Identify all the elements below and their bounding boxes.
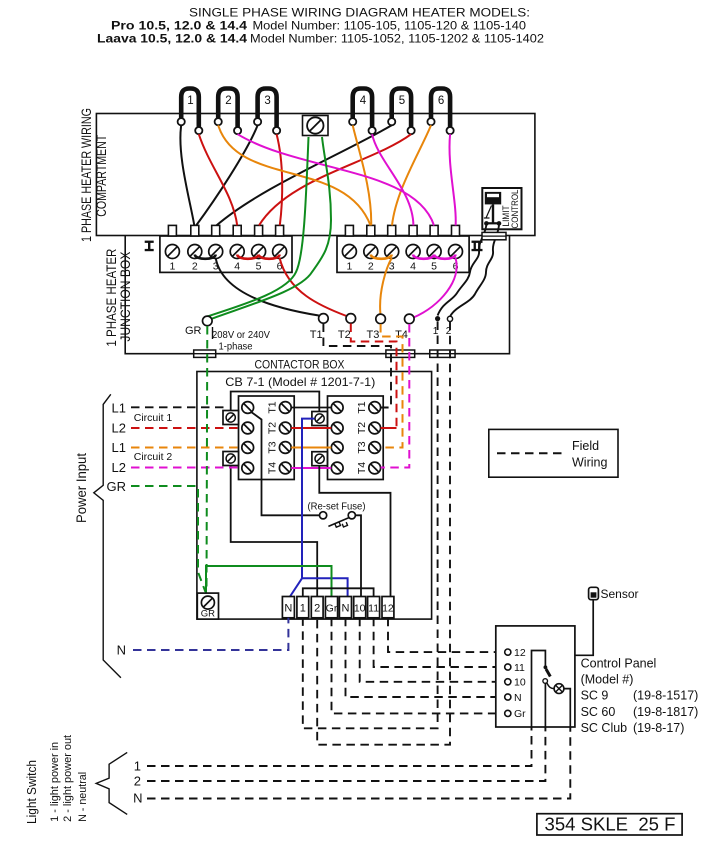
control panel box [496,626,575,727]
svg-text:12: 12 [514,647,526,659]
block II screw 2 [364,245,378,273]
block I screw 5 [252,245,266,273]
svg-text:T1: T1 [267,401,279,413]
wire block I screw6 to T2 node (red) [280,258,347,316]
wire element1 right pin to block I tab4 (red) [199,134,237,225]
label Circuit 2 [134,451,173,463]
svg-text:GR: GR [107,479,127,494]
node T2 [338,314,356,341]
svg-text:T1: T1 [356,401,368,413]
panel terminal 12 [505,647,526,659]
wire block I screw3 to T1 node (black) [216,258,319,316]
element 5 pin left [388,118,395,125]
svg-text:4: 4 [360,95,367,107]
svg-text:354 SKLE 25 F: 354 SKLE 25 F [545,815,676,835]
node 2 (limit control) [446,316,453,337]
field wire node 2 to strip cell 2 (dashed) [317,322,450,745]
label Power Input [74,453,89,523]
field wire T1 to CB2 (black dashed) [323,324,391,408]
ground wire GR node to ground screw (green, right) [210,137,332,320]
svg-text:2: 2 [368,261,374,273]
node T4 [395,314,414,341]
element 6 pin left [427,118,434,125]
contactor CB1 (left) T4 right screw [279,462,291,474]
label N [117,643,126,658]
wire element3 right pin to block I tab6 (red) [277,134,283,225]
svg-text:CB 7-1 (Model # 1201-7-1): CB 7-1 (Model # 1201-7-1) [225,375,375,389]
compartment label: COMPARTMENT [94,135,109,217]
wire CB2 coil upper terminal to N cells (blue) [290,419,348,597]
svg-text:1: 1 [187,95,193,107]
svg-text:L1: L1 [112,401,126,416]
GR ground screw box (contactor) [197,593,218,619]
element 6 pin right [447,127,454,134]
svg-text:N: N [284,603,292,615]
wire T2 row: CB1 to CB2 (red) [291,427,331,429]
wire element2 left pin to block II tab2 (orange) [218,125,370,225]
wire element4 left pin to block II tab2 (orange) [353,125,372,225]
jumper block II screws 4-5 (magenta) [413,255,434,259]
svg-text:6: 6 [438,95,444,107]
label L1 circuit2 [112,440,126,455]
sensor [589,587,639,601]
svg-text:T1: T1 [310,329,323,341]
svg-text:N - neutral: N - neutral [77,772,89,822]
svg-text:T2: T2 [356,422,368,434]
svg-text:N: N [514,692,522,704]
block I screw 4 [230,245,244,273]
title line 3 [97,32,544,46]
svg-text:L2: L2 [112,421,126,436]
field wire T4 to CB2 (magenta dashed) [381,324,410,468]
svg-text:4: 4 [234,261,240,273]
svg-text:GR: GR [185,325,202,337]
label L2 circuit2 [112,460,126,475]
jumper block I screws 5-6 (red) [259,255,280,259]
element 3 pin right [273,127,280,134]
svg-text:COMPARTMENT: COMPARTMENT [94,135,109,217]
heater element 4 [353,89,372,128]
svg-text:2: 2 [134,774,141,789]
svg-text:Gr: Gr [326,603,338,615]
contactor CB2 (right) label T1 [356,401,368,413]
contactor CB2 (right) body [328,396,384,480]
svg-text:T4: T4 [267,462,279,474]
wire element4 right pin to block II tab4 (magenta) [372,134,413,225]
wire block II screw3 to T3 node (orange) [380,258,392,314]
svg-text:(Re-set Fuse): (Re-set Fuse) [308,501,366,513]
label light 2 [134,774,141,789]
svg-text:SINGLE PHASE WIRING DIAGRAM HE: SINGLE PHASE WIRING DIAGRAM HEATER MODEL… [189,6,530,20]
block I screw 3 [209,245,223,273]
svg-text:2: 2 [192,261,198,273]
svg-text:1: 1 [169,261,175,273]
label L1 circuit1 [112,401,126,416]
contactor CB2 (right) T3 right screw [369,442,381,454]
field wire strip Gr to panel Gr (dashed) [332,618,505,714]
field wire L1 circuit1 (black dashed) [131,406,228,408]
jumper block I screws 2-3 (black) [195,255,216,259]
contactor CB1 (left) T2 left screw [242,422,254,434]
jumper strip cell 1 to cell 11 [303,588,374,596]
block II screw 4 [406,245,420,273]
field wire light 2 (dashed) [147,727,545,781]
svg-text:11: 11 [514,662,525,674]
svg-text:(19-8-1517): (19-8-1517) [633,689,698,703]
wire element3 left pin to block I tab2 (black) [196,125,257,225]
svg-text:Control Panel: Control Panel [581,656,657,670]
label Circuit 1 [134,412,173,424]
svg-text:SC Club: SC Club [581,721,628,735]
node GR [185,316,212,337]
field wire strip 10 to panel 10 (dashed) [360,618,505,682]
wire element2 right pin to block II tab5 (magenta) [238,134,434,225]
svg-text:SC 9: SC 9 [581,689,609,703]
element 1 pin right [195,127,202,134]
svg-text:T2: T2 [267,422,279,434]
block II screw 6 [449,245,463,273]
wire element6 left pin to block II tab3 (orange) [392,125,431,225]
svg-text:Pro 10.5, 12.0 & 14.4Model Num: Pro 10.5, 12.0 & 14.4Model Number: 1105-… [111,19,526,33]
svg-text:1-phase: 1-phase [219,341,253,353]
wire CB1 T1 screw to reset fuse left [251,412,320,516]
cable clamp right (junction box bottom) [430,350,455,357]
limit control box [482,188,521,229]
node T3 [366,314,385,341]
element 3 pin left [254,118,261,125]
svg-text:1 PHASE HEATER: 1 PHASE HEATER [104,248,119,346]
power input brace [94,394,121,677]
contactor CB2 (right) T3 left screw [331,442,343,454]
field wire node 1 to strip cell 1 (dashed) [303,322,438,729]
svg-text:5: 5 [256,261,262,273]
svg-text:SC 60: SC 60 [581,705,616,719]
wire T3 row: CB1 to CB2 (orange) [291,447,331,449]
svg-text:(Model #): (Model #) [581,673,634,687]
heater wiring compartment box [96,114,535,236]
wire element5 right pin to block I tab5 (red) [259,134,411,225]
contactor CB1 (left) T3 left screw [242,442,254,454]
block I screw 2 [188,245,202,273]
svg-text:T3: T3 [267,441,279,453]
svg-text:JUNCTION BOX: JUNCTION BOX [118,252,133,342]
label CONTACTOR BOX [255,358,345,372]
svg-text:12: 12 [382,603,394,615]
field wire light 1 (dashed) [147,727,532,766]
svg-text:3: 3 [264,95,270,107]
panel light switch [532,651,555,728]
svg-text:1 - light power in: 1 - light power in [49,742,61,822]
wire GR screw to strip cell Gr (green) [206,566,332,597]
contactor CB1 (left) label T2 [267,422,279,434]
contactor CB2 (right) T4 right screw [369,462,381,474]
contactor CB2 (right) label T3 [356,441,368,453]
wire CB2 coil lower terminal to strip cell 12 [319,466,390,597]
field wire L2 circuit1 (red dashed) [131,427,241,429]
contactor CB1 (left) T1 right screw [279,402,291,414]
panel terminal Gr [505,708,526,720]
jumper block II screws 2-3 (orange) [371,255,392,259]
wire T1 row: CB1 to CB2 (black) [291,407,331,409]
svg-text:N: N [133,791,142,806]
svg-text:T3: T3 [356,441,368,453]
field wire L1 circuit2 (orange dashed) [131,447,241,449]
svg-text:5: 5 [399,95,405,107]
field wire strip 11 to panel 11 (dashed) [374,618,505,667]
svg-text:L2: L2 [112,460,126,475]
svg-text:Wiring: Wiring [572,455,607,469]
cable clamp limit control (compartment bottom) [482,232,506,239]
sensor wire to panel [575,600,593,656]
ground wire GR node to ground screw (green, left) [207,137,308,317]
svg-text:L1: L1 [112,440,126,455]
svg-text:T2: T2 [338,329,351,341]
legend 1 - light power in [49,742,61,822]
svg-text:1: 1 [134,759,141,774]
reset fuse [308,501,366,528]
legend N - neutral [77,772,89,822]
cable clamp left (junction box bottom) [194,350,216,357]
compartment label: 1 PHASE HEATER WIRING [79,108,94,242]
contactor CB2 coil terminal upper [312,412,328,426]
contactor CB1 (left) T3 right screw [279,442,291,454]
legend 2 - light power out [62,735,74,822]
svg-text:CONTACTOR BOX: CONTACTOR BOX [255,358,345,372]
field wire GR from junction box (green dashed) [206,326,209,592]
svg-text:Circuit 2: Circuit 2 [134,451,173,463]
junction box label: JUNCTION BOX [118,252,133,342]
element 5 pin right [408,127,415,134]
contactor CB1 (left) T1 left screw [242,402,254,414]
contactor CB2 (right) label T4 [356,462,368,474]
roman numeral II marker [472,241,483,252]
svg-text:Field: Field [572,439,599,453]
terminal strip N 1 2 Gr N 10 11 12 [282,597,394,618]
wire L1 jumper: CB1 coil terminal to CB2 coil terminal (over top) [231,392,320,412]
field wire N (blue dashed) [133,618,288,650]
svg-text:CONTROL: CONTROL [510,190,520,229]
junction box label: 1 PHASE HEATER [104,248,119,346]
panel terminal 11 [505,662,525,674]
svg-text:Light Switch: Light Switch [24,760,39,824]
contactor CB1 (left) body [239,396,295,480]
contactor CB2 (right) T4 left screw [331,462,343,474]
field wire L2 circuit2 (magenta dashed) [131,467,238,469]
drawing number box 354 SKLE 25 F [537,814,682,835]
field wire GR (green dashed) [131,486,206,592]
svg-text:5: 5 [431,261,437,273]
block II screw 5 [427,245,441,273]
node T1 [310,314,328,341]
svg-text:1 PHASE HEATER WIRING: 1 PHASE HEATER WIRING [79,108,94,242]
heater element 2 [218,89,237,128]
svg-text:Gr: Gr [514,708,526,720]
svg-text:1: 1 [346,261,352,273]
block I screw 6 [273,245,287,273]
svg-text:2 - light power out: 2 - light power out [62,735,74,822]
svg-text:N: N [341,603,349,615]
svg-text:(19-8-17): (19-8-17) [633,721,684,735]
jumper block I screws 4-5 (red) [237,255,258,259]
panel indicator lamp [554,684,570,727]
heater element 1 [181,89,199,128]
heater element 3 [258,89,277,128]
wire element6 right pin to block II tab6 (magenta) [450,134,456,225]
svg-text:11: 11 [368,603,379,615]
contactor CB1 (left) label T1 [267,401,279,413]
wire reset fuse right to strip cell 10 [355,515,361,596]
roman numeral I marker [145,241,154,252]
svg-text:T4: T4 [395,329,408,341]
contactor box outline [197,372,432,620]
control panel text block [581,656,699,735]
svg-text:1: 1 [300,603,306,615]
contactor CB2 (right) T1 left screw [331,402,343,414]
heater element 5 [392,89,411,128]
panel terminal 10 [505,677,526,689]
label light 1 [134,759,141,774]
contactor CB1 coil terminal lower [223,452,239,466]
svg-text:Power Input: Power Input [74,453,89,523]
contactor CB2 (right) T1 right screw [369,402,381,414]
light switch brace [96,752,127,814]
contactor CB1 (left) T2 right screw [279,422,291,434]
wire block II screw6 to T4 node (magenta) [414,258,457,318]
wire T2 stub CB2 right (red) [381,427,397,429]
svg-text:2: 2 [314,603,320,615]
svg-text:GR: GR [201,609,215,620]
svg-text:208V or 240V: 208V or 240V [212,329,270,341]
title line 1 [189,6,530,20]
svg-text:10: 10 [354,603,366,615]
limit control wire to node 1 (wavy) [438,224,487,316]
contactor CB1 (left) label T4 [267,462,279,474]
element 2 pin left [215,118,222,125]
svg-text:N: N [117,643,126,658]
field wire T3 to CB2 (orange dashed) [381,324,403,448]
wire T4 row: CB1 to CB2 (magenta) [291,467,331,469]
svg-text:T3: T3 [366,329,379,341]
label 208V or 240V 1-phase [212,327,270,353]
field wire light N (dashed) [147,727,570,799]
contactor CB1 (left) T4 left screw [242,462,254,474]
contactor CB2 coil terminal lower [312,452,328,466]
label Light Switch [24,760,39,824]
title line 2 [111,19,526,33]
field wire strip N to panel N (dashed) [346,618,505,697]
label GR [107,479,127,494]
wire element5 left pin to block I tab3 (black) [217,125,392,225]
wire CB1 coil lower terminal to strip cell 2 [231,466,318,597]
svg-text:Laava 10.5, 12.0 & 14.4Model N: Laava 10.5, 12.0 & 14.4Model Number: 110… [97,32,544,46]
label light N [133,791,142,806]
panel terminal N [505,692,522,704]
block II screw 1 [342,245,356,273]
jumper block II screws 5-6 (magenta) [434,255,455,259]
heater element 6 [431,89,450,128]
label CB 7-1 (Model # 1201-7-1) [225,375,375,389]
field wire T2 to CB2 (red dashed) [351,324,397,429]
contactor CB2 (right) T2 left screw [331,422,343,434]
block II screw 3 [385,245,399,273]
element 1 pin left [178,118,185,125]
node 1 (limit control) [433,316,440,337]
contactor CB1 (left) label T3 [267,441,279,453]
terminal block II (right) [337,225,469,272]
contactor CB1 coil terminal upper [223,411,239,425]
element 4 pin left [349,118,356,125]
cable clamp middle (junction box bottom) [386,350,415,357]
contactor CB2 (right) T2 right screw [369,422,381,434]
element 2 pin right [234,127,241,134]
junction box outline [125,236,509,354]
svg-text:Sensor: Sensor [601,587,639,601]
label L2 circuit1 [112,421,126,436]
svg-text:4: 4 [410,261,416,273]
field wiring legend box [489,429,618,477]
element 4 pin right [369,127,376,134]
svg-text:T4: T4 [356,462,368,474]
terminal block I (left) [160,225,292,272]
field wire strip 12 to panel 12 (dashed) [388,618,505,652]
block I screw 1 [165,245,179,273]
svg-text:2: 2 [225,95,231,107]
svg-text:(19-8-1817): (19-8-1817) [633,705,698,719]
limit control wire to node 2 (wavy) [450,224,499,316]
wire element1 left pin to block I tab2 (black) [180,125,194,225]
ground screw box [303,116,329,136]
svg-text:10: 10 [514,677,526,689]
svg-text:Circuit 1: Circuit 1 [134,412,173,424]
contactor CB2 (right) label T2 [356,422,368,434]
